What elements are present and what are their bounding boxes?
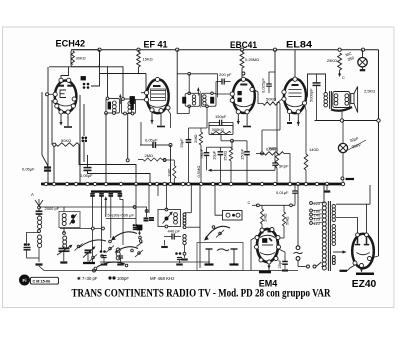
- wire: [39, 266, 44, 271]
- phono T right: [233, 249, 235, 264]
- resistor 5M: [282, 212, 285, 226]
- IFT1 box A: [106, 99, 120, 114]
- cap 440: [171, 234, 173, 240]
- wire: [231, 141, 233, 147]
- IFT1 terminals: [106, 97, 109, 100]
- resistor 30K: [71, 51, 74, 65]
- IFT2 feed top: [177, 73, 217, 75]
- pin: [302, 101, 306, 105]
- node: [257, 204, 260, 207]
- svg-text:EZ40: EZ40: [352, 279, 377, 290]
- svg-text:EBC41: EBC41: [230, 40, 257, 50]
- PT core: [327, 201, 329, 271]
- wire: [107, 66, 109, 98]
- wire: [323, 185, 325, 202]
- IFT2 coil A: [192, 95, 195, 98]
- tube EL84 inner: [286, 104, 304, 107]
- svg-text:5×(30)÷500 μF: 5×(30)÷500 μF: [108, 213, 135, 218]
- resistor 50K: [56, 143, 79, 147]
- node: [176, 48, 179, 51]
- svg-text:300KΩ: 300KΩ: [212, 127, 224, 132]
- pin: [260, 228, 264, 232]
- wire: [283, 205, 285, 212]
- wire: [347, 265, 355, 271]
- wire: [188, 106, 190, 113]
- wire: [200, 128, 202, 132]
- node above: [242, 72, 245, 75]
- logo circle: [20, 275, 30, 285]
- svg-text:5KpF: 5KpF: [279, 164, 289, 169]
- bus node: [288, 182, 291, 185]
- trimmer 3: [109, 193, 114, 195]
- wire spk: [341, 111, 343, 121]
- bus node: [248, 182, 251, 185]
- svg-text:440 pF: 440 pF: [168, 228, 181, 233]
- switch mains: [296, 246, 300, 250]
- tube EBC41 diode plates: [238, 91, 242, 95]
- phono T left: [208, 249, 210, 264]
- svg-text:0,025μF: 0,025μF: [261, 78, 266, 93]
- wire: [41, 92, 43, 155]
- tube EZ40 plates: [356, 233, 360, 237]
- wire: [83, 104, 85, 136]
- wire pin6: [168, 110, 171, 128]
- pin: [267, 260, 271, 264]
- node: [340, 119, 343, 122]
- wire: [215, 184, 223, 215]
- bus node: [65, 182, 68, 185]
- wire right rail: [378, 50, 380, 256]
- wire: [87, 155, 89, 167]
- svg-text:150pF: 150pF: [239, 148, 244, 160]
- pin: [67, 78, 71, 82]
- wire y120: [315, 120, 379, 122]
- svg-text:1MΩ: 1MΩ: [167, 168, 172, 177]
- ground EM4: [259, 271, 271, 274]
- IFT2 box B: [201, 93, 216, 106]
- tube EF41 grid: [151, 90, 165, 92]
- wire: [269, 72, 275, 78]
- resistor 0.5Mh: [264, 152, 284, 155]
- ground: [120, 259, 122, 264]
- pin: [360, 264, 364, 268]
- wire top rail: [71, 49, 379, 51]
- tube EM4 envelope: [257, 229, 278, 262]
- pin: [255, 245, 259, 249]
- wire: [157, 184, 159, 196]
- bus node: [304, 182, 307, 185]
- wire: [336, 203, 370, 205]
- tube EF41 inner: [148, 104, 167, 107]
- svg-text:10μF: 10μF: [211, 150, 216, 160]
- cap 5KpFb: [272, 162, 278, 164]
- node: [273, 48, 276, 51]
- ground: [164, 240, 166, 246]
- cap 50pF: [186, 139, 192, 141]
- svg-text:0,05μF: 0,05μF: [22, 167, 35, 172]
- wire: [91, 74, 100, 87]
- bus chassis: [41, 183, 344, 186]
- wire y228: [60, 228, 103, 230]
- bus node: [211, 182, 214, 185]
- tap 110: [310, 222, 313, 225]
- bus node: [341, 182, 344, 185]
- gnd under bus: [326, 184, 328, 190]
- svg-text:15KΩ: 15KΩ: [222, 151, 227, 161]
- svg-text:0,5MΩ: 0,5MΩ: [196, 166, 201, 178]
- bus node: [155, 182, 158, 185]
- cap 150pFh: [219, 120, 221, 126]
- wire: [207, 146, 220, 148]
- svg-text:5000pF: 5000pF: [309, 88, 314, 102]
- wire: [47, 67, 49, 184]
- bus node: [74, 182, 77, 185]
- PT sec3: [332, 256, 335, 259]
- node: [63, 232, 66, 235]
- dots cap: [133, 224, 135, 226]
- switch contact: [131, 249, 134, 252]
- trim mid arrow: [163, 213, 172, 224]
- wire: [228, 123, 233, 131]
- cap g3: [177, 257, 182, 259]
- wire: [246, 141, 248, 152]
- trimmer 1: [90, 193, 95, 195]
- coil osc2: [63, 236, 67, 240]
- bus node: [44, 182, 47, 185]
- pin: [59, 110, 63, 114]
- coil ant1: [38, 216, 42, 220]
- bus node: [134, 182, 137, 185]
- bus node: [260, 182, 263, 185]
- bus node: [187, 182, 190, 185]
- wire: [274, 153, 276, 157]
- svg-text:2MΩ: 2MΩ: [193, 134, 198, 143]
- trim wires: [92, 196, 94, 262]
- svg-text:✱: ✱: [77, 276, 81, 281]
- ground: [63, 251, 65, 261]
- node on wire: [46, 93, 49, 96]
- pin forks: [141, 92, 145, 94]
- wire: [297, 114, 299, 126]
- VC2 arrow: [83, 248, 94, 258]
- pin: [255, 236, 259, 240]
- wire: [305, 170, 307, 184]
- wire: [79, 95, 81, 184]
- wire: [254, 90, 263, 104]
- pin: [145, 98, 149, 102]
- wire mains: [297, 184, 299, 246]
- ground EZ40 left: [340, 270, 348, 272]
- grid dots: [83, 83, 86, 86]
- pin: [236, 110, 240, 114]
- wire: [274, 50, 276, 101]
- cap 25pF: [282, 261, 288, 263]
- coil mR: [183, 213, 186, 216]
- resistor 30K box: [71, 50, 100, 67]
- tube EBC41 envelope: [233, 79, 255, 113]
- OT core: [329, 91, 331, 109]
- tube EF41 envelope: [147, 79, 169, 113]
- arrow: [60, 120, 62, 123]
- tube EF41 anode: [153, 85, 161, 87]
- svg-text:EM4: EM4: [259, 278, 278, 289]
- IFT1 arrow: [119, 97, 121, 105]
- wire: [184, 245, 186, 254]
- svg-text:15KΩ: 15KΩ: [143, 57, 153, 62]
- tap 140: [310, 213, 313, 216]
- svg-text:200 pF: 200 pF: [219, 72, 232, 77]
- wire: [122, 66, 124, 99]
- bus bar2: [91, 190, 122, 192]
- pin: [287, 109, 291, 113]
- wire y73: [100, 73, 147, 75]
- switch contact: [94, 267, 97, 270]
- node: [137, 48, 140, 51]
- bus node: [181, 182, 184, 185]
- wire: [206, 147, 208, 153]
- IFT2 cap B: [211, 97, 214, 103]
- wire: [38, 214, 40, 216]
- switch arc3: [97, 262, 125, 267]
- svg-text:2,5KΩ: 2,5KΩ: [364, 89, 375, 94]
- node: [163, 159, 166, 162]
- wire: [160, 113, 162, 126]
- wire: [79, 145, 136, 185]
- wire: [362, 50, 364, 58]
- svg-text:C M 15-06: C M 15-06: [33, 280, 51, 284]
- node: [98, 48, 101, 51]
- ground: [179, 260, 181, 263]
- tube EL84 anode: [292, 84, 299, 86]
- wire: [51, 100, 53, 145]
- node: [231, 139, 234, 142]
- svg-text:25KΩ: 25KΩ: [327, 58, 337, 63]
- tap 160: [310, 209, 313, 212]
- pin: [245, 110, 249, 114]
- cap ant: [36, 210, 43, 212]
- wire: [138, 159, 143, 161]
- resistor 300K: [211, 131, 231, 134]
- svg-text:EF 41: EF 41: [144, 40, 168, 50]
- svg-text:A: A: [31, 192, 34, 197]
- wire y128: [189, 127, 208, 129]
- wire: [38, 248, 40, 263]
- pin: [277, 245, 281, 249]
- wire: [48, 93, 53, 95]
- IFT1 coil B: [128, 102, 132, 106]
- svg-text:5KpF: 5KpF: [199, 148, 204, 158]
- node: [361, 48, 364, 51]
- wire: [67, 114, 69, 126]
- wire: [336, 218, 358, 234]
- node: [261, 129, 263, 131]
- wire: [279, 104, 281, 131]
- cap g1: [101, 255, 106, 257]
- pin: [159, 109, 163, 113]
- IFT2 arrow: [197, 90, 199, 96]
- cap fixed: [24, 243, 27, 246]
- wire: [63, 228, 65, 234]
- svg-text:ECH42: ECH42: [56, 38, 86, 48]
- conn box: [223, 211, 243, 221]
- node: [261, 152, 264, 155]
- dark cap midA: [144, 217, 149, 219]
- bus node: [273, 182, 276, 185]
- wire row270: [44, 270, 298, 272]
- bus node: [93, 182, 96, 185]
- coil osc: [62, 214, 66, 218]
- wire: [127, 114, 129, 161]
- trim osc: [71, 215, 75, 219]
- phono swoosh: [217, 249, 229, 251]
- node: [183, 226, 186, 229]
- wire right col: [199, 184, 201, 268]
- bus node: [163, 182, 166, 185]
- box 300K: [209, 126, 233, 135]
- svg-text:Fi: Fi: [23, 278, 27, 283]
- IFT1 box B: [122, 99, 136, 114]
- pin: [53, 99, 57, 103]
- tube EM4 inner: [260, 235, 275, 237]
- switch contact: [77, 245, 80, 248]
- svg-text:C: C: [342, 75, 345, 80]
- PT arrow: [333, 251, 344, 253]
- pin: [270, 228, 274, 232]
- wire: [279, 249, 286, 262]
- coil m2: [174, 213, 178, 217]
- bus node: [86, 182, 89, 185]
- svg-text:220: 220: [314, 201, 321, 206]
- svg-text:110: 110: [314, 221, 321, 226]
- tube ECH42 inner: [57, 103, 75, 106]
- legend dots: [108, 276, 111, 279]
- dark blob: [137, 225, 142, 230]
- bus node: [104, 182, 107, 185]
- dark cap midB: [149, 217, 154, 219]
- grid cap: [81, 77, 86, 81]
- svg-text:30KΩ: 30KΩ: [76, 56, 86, 61]
- IFT1 cap A: [108, 102, 111, 109]
- pot arrow: [211, 169, 275, 171]
- wire: [173, 160, 175, 166]
- lamp ground: [362, 67, 364, 69]
- resistor 0.25M: [240, 52, 244, 68]
- pin: [53, 92, 57, 96]
- svg-text:7÷30 pF: 7÷30 pF: [82, 276, 98, 281]
- pin: [66, 110, 70, 114]
- pin: [166, 106, 170, 110]
- IFT2 box A: [185, 93, 200, 106]
- bus node: [52, 182, 55, 185]
- cap g2: [118, 255, 123, 257]
- IFT2 divider: [199, 91, 201, 108]
- tap 125: [310, 217, 313, 220]
- tap 220: [310, 202, 313, 205]
- coil g: [116, 248, 120, 252]
- ground: [184, 255, 186, 258]
- svg-text:25pF: 25pF: [277, 259, 282, 269]
- svg-text:MF 468 KHz: MF 468 KHz: [150, 276, 174, 281]
- node: [126, 159, 129, 162]
- switch contact: [101, 255, 104, 258]
- wire: [138, 50, 140, 52]
- wire: [294, 50, 296, 78]
- wire: [305, 105, 307, 154]
- node: [53, 143, 56, 146]
- node: [169, 144, 172, 147]
- IFT2 cap A: [183, 97, 186, 103]
- pin: [282, 90, 286, 94]
- wire: [176, 50, 178, 114]
- tube ECH42 envelope: [55, 81, 77, 113]
- svg-text:140Ω: 140Ω: [309, 147, 319, 152]
- wire: [105, 113, 107, 184]
- wire: [206, 106, 208, 128]
- wire: [60, 114, 62, 125]
- wire: [241, 50, 243, 52]
- OT sec coil: [334, 94, 338, 98]
- pin: [230, 92, 234, 96]
- wire: [165, 184, 167, 210]
- cathode: [151, 112, 153, 124]
- wire: [135, 184, 137, 230]
- pin: [155, 77, 159, 81]
- wire: [369, 185, 371, 204]
- svg-text:50KΩ: 50KΩ: [61, 138, 71, 143]
- wire: [162, 159, 165, 162]
- coil m3: [183, 235, 186, 238]
- switch contact: [109, 240, 112, 243]
- pin: [250, 87, 254, 91]
- node: [38, 230, 41, 233]
- bus node: [199, 182, 202, 185]
- wire EM4 left: [251, 238, 255, 271]
- wire: [157, 50, 159, 79]
- svg-text:100pF: 100pF: [117, 276, 129, 281]
- switch arc1b: [80, 240, 106, 247]
- mains plug: [307, 265, 310, 268]
- sw contacts: [139, 236, 142, 239]
- coil ant2: [38, 235, 42, 239]
- svg-text:0,01μF: 0,01μF: [276, 190, 289, 195]
- tube EL84 envelope: [284, 79, 306, 114]
- pin: [59, 78, 63, 82]
- logo box: [31, 277, 59, 284]
- wire: [370, 257, 373, 260]
- speaker: [351, 94, 354, 104]
- OT swoosh: [331, 107, 352, 111]
- PT sec1: [332, 205, 335, 208]
- cathode: [289, 114, 291, 121]
- wire row262: [100, 261, 210, 263]
- arrow C: [339, 70, 341, 75]
- resistor 15Kv: [229, 148, 232, 161]
- pin: [71, 104, 75, 108]
- wire h205: [258, 204, 295, 206]
- resistor 1Mb: [275, 153, 278, 168]
- ground EZ40 main: [356, 273, 374, 276]
- switch big arc: [206, 226, 230, 238]
- cap 0.05 left: [44, 166, 51, 168]
- wire: [39, 207, 64, 212]
- tube EBC41 anode: [240, 84, 247, 86]
- wire: [342, 121, 344, 144]
- svg-text:1MΩ: 1MΩ: [268, 146, 277, 151]
- tube ECH42 anode bars: [58, 85, 64, 87]
- svg-text:C: C: [248, 200, 251, 205]
- resistor 15K: [137, 52, 141, 67]
- wire: [53, 145, 55, 184]
